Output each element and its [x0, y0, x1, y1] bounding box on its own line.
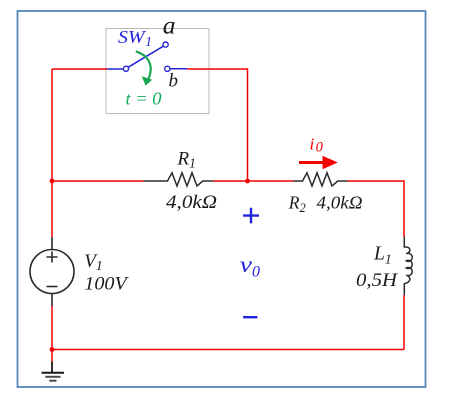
switch blade [128, 46, 163, 67]
resistor R2 [294, 173, 348, 186]
switch contact a circle [163, 42, 168, 47]
svg-text:0: 0 [316, 140, 324, 156]
green actuation arrow [136, 51, 151, 82]
wire middle horizontal left [52, 180, 144, 182]
wire left vertical upper [51, 69, 53, 237]
svg-text:1: 1 [145, 34, 152, 49]
svg-text:a: a [163, 11, 176, 40]
svg-text:4,0kΩ: 4,0kΩ [166, 192, 217, 213]
wire top-left horizontal [52, 68, 107, 70]
node junction dot left-middle [50, 179, 55, 184]
wire right vertical lower [403, 295, 405, 350]
wire switch to corner right [187, 69, 248, 181]
switch contact b circle [165, 66, 170, 71]
node junction dot ground [50, 347, 55, 352]
wire left vertical lower [51, 306, 53, 362]
svg-text:100V: 100V [84, 274, 129, 295]
label plus v0 [243, 208, 259, 224]
inductor L1 [404, 237, 412, 296]
switch SW1 blue leads [107, 68, 123, 70]
svg-text:v: v [240, 252, 253, 277]
resistor R1 [144, 173, 214, 186]
svg-text:0,5H: 0,5H [356, 270, 398, 291]
node junction dot R1-R2 [245, 179, 250, 184]
svg-text:t = 0: t = 0 [126, 89, 162, 109]
switch enclosure box [106, 29, 209, 114]
wire middle horizontal right [348, 181, 405, 237]
svg-text:0: 0 [252, 263, 260, 280]
current arrow i0 [299, 161, 324, 164]
svg-text:i: i [310, 135, 315, 154]
voltage source V1 [51, 237, 53, 306]
switch pole circle [123, 66, 128, 71]
wire bottom horizontal [52, 349, 404, 351]
svg-text:b: b [169, 71, 179, 92]
label minus v0 [243, 316, 257, 318]
wire middle horizontal center [213, 180, 294, 182]
svg-text:SW: SW [118, 27, 147, 47]
svg-text:4,0kΩ: 4,0kΩ [317, 193, 363, 213]
ground [51, 362, 53, 373]
